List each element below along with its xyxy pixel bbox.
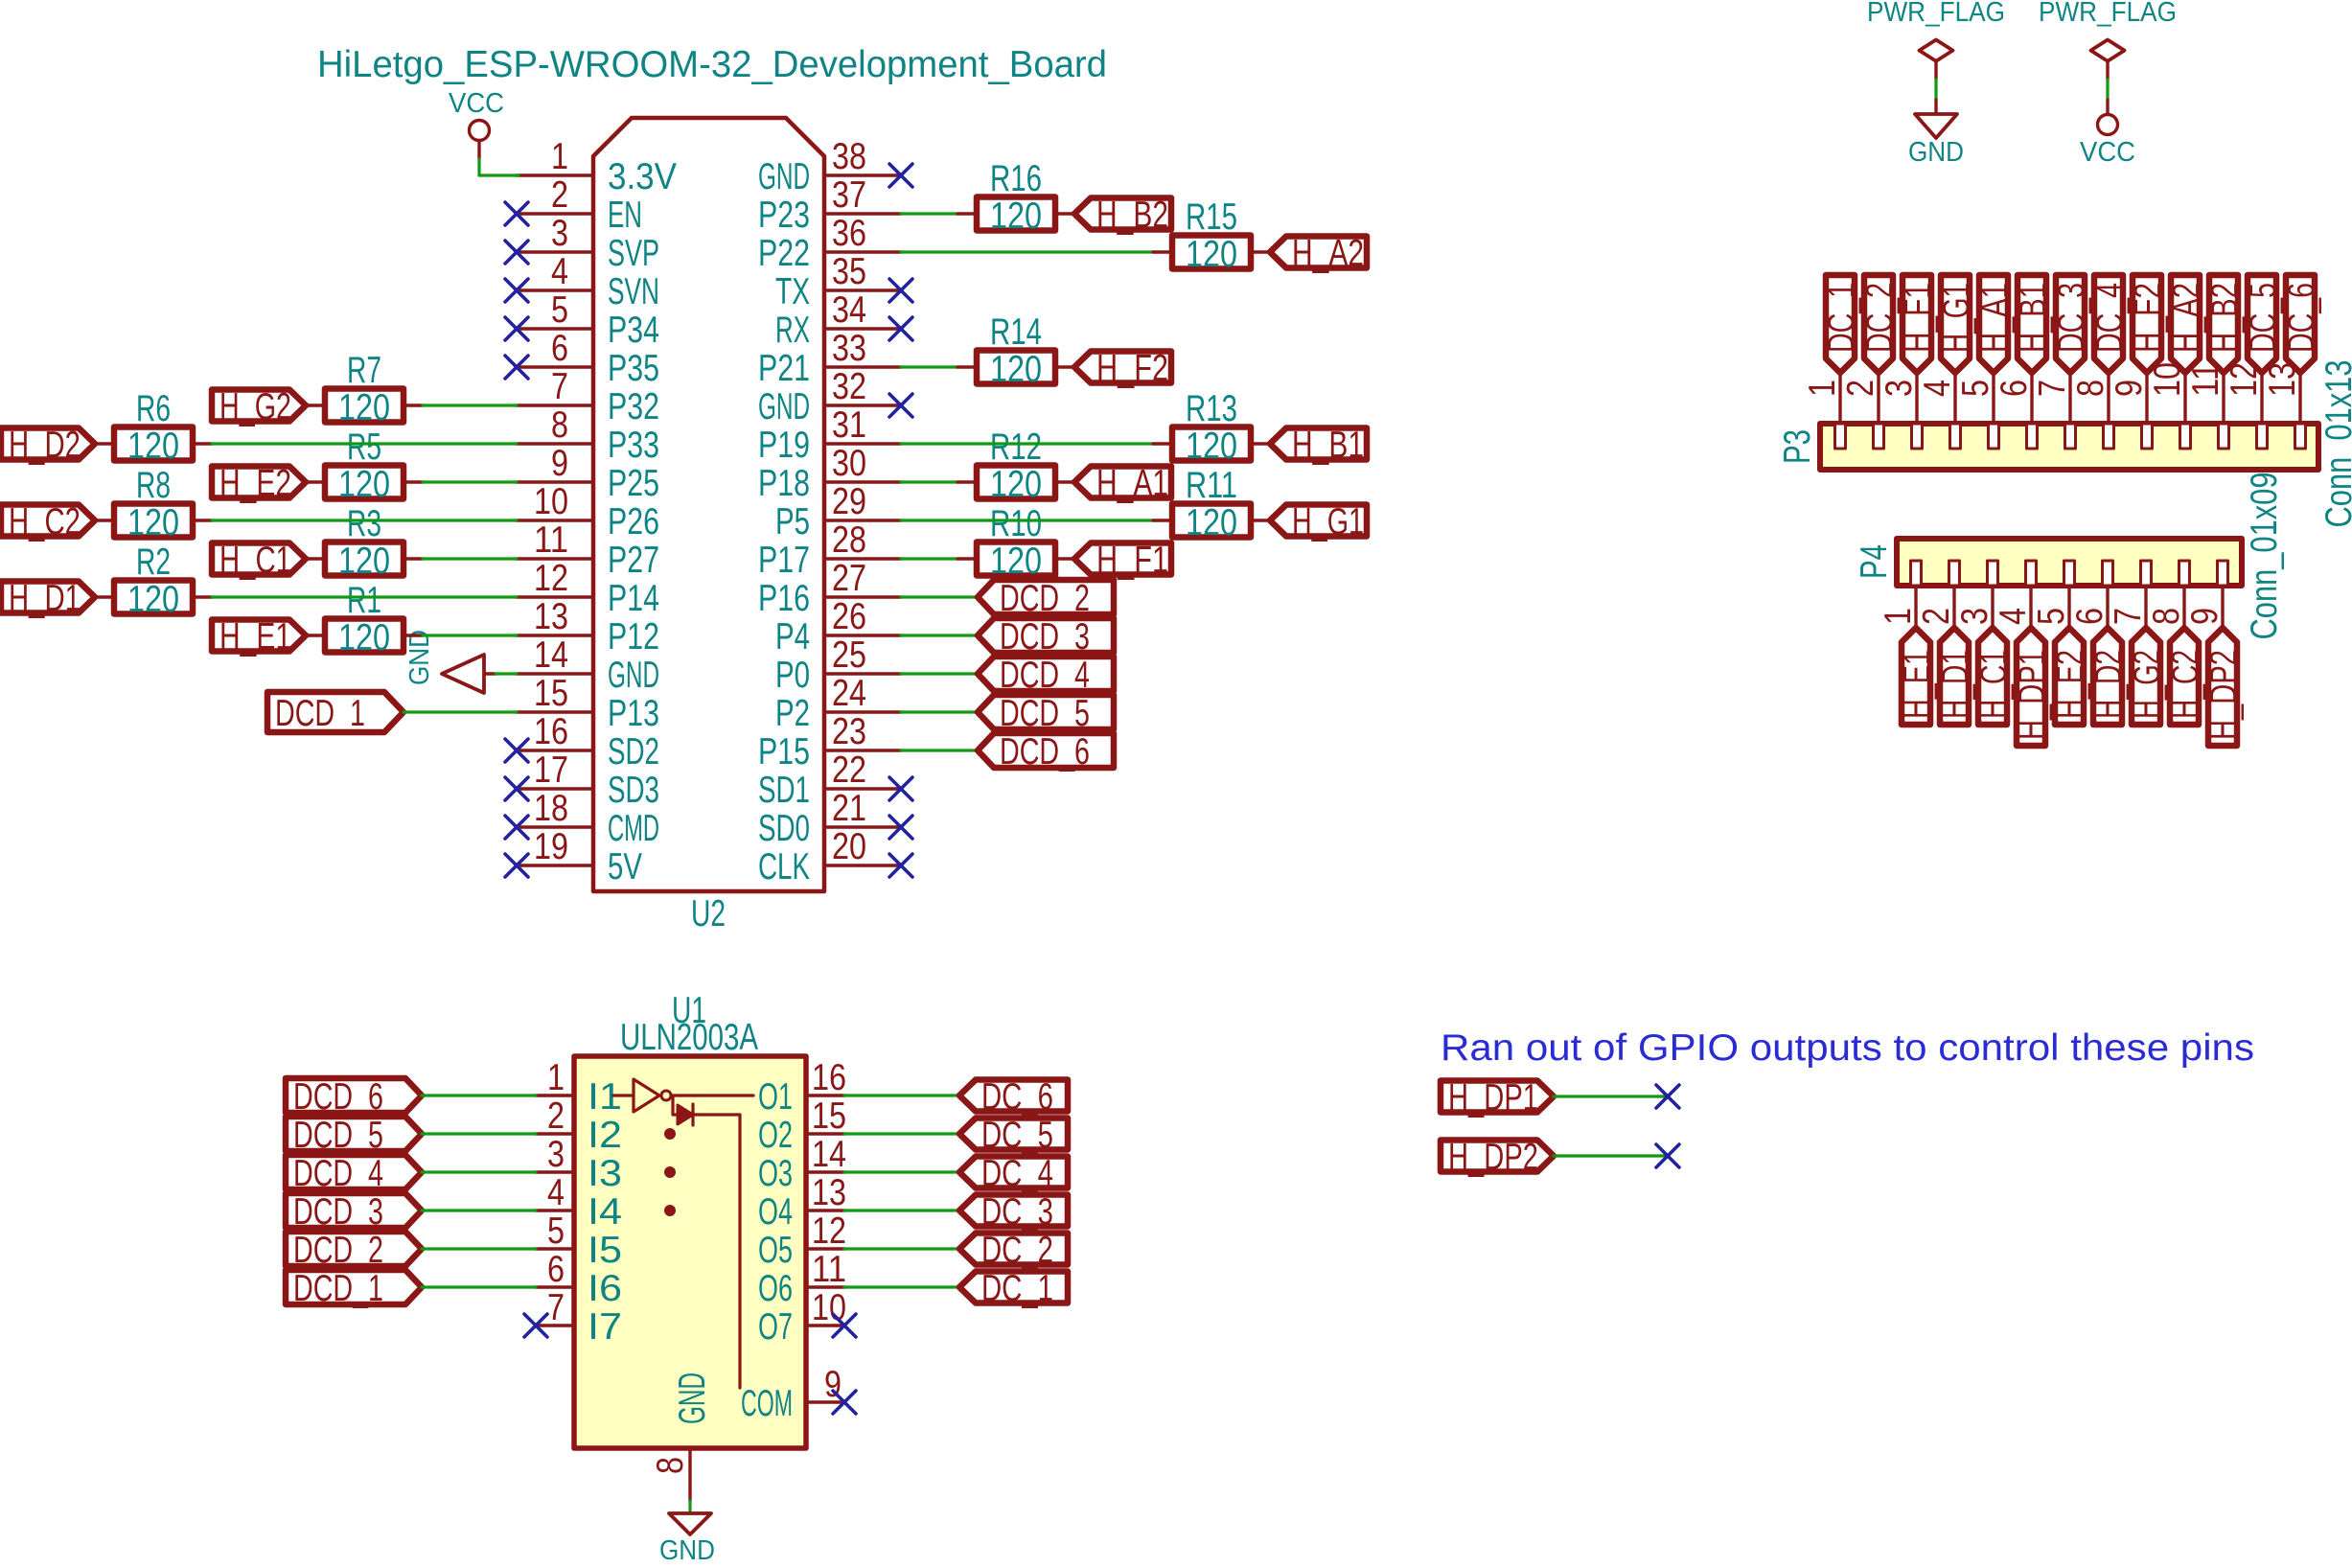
svg-text:Conn_01x13: Conn_01x13 xyxy=(2318,360,2352,528)
svg-text:120: 120 xyxy=(127,579,179,620)
svg-text:DC_3: DC_3 xyxy=(981,1191,1053,1233)
global label DC_4 xyxy=(2089,275,2131,373)
global label H_A2 xyxy=(1270,233,1367,274)
svg-text:5: 5 xyxy=(2031,608,2072,625)
resistor R7 xyxy=(306,350,423,428)
svg-text:R7: R7 xyxy=(347,350,381,391)
pin 29 (P5) of U2 xyxy=(775,481,901,542)
global label DC_3 xyxy=(2051,275,2092,373)
wire DCD_1 to pin 15 xyxy=(404,710,517,713)
global label H_E1 xyxy=(212,616,306,657)
svg-text:25: 25 xyxy=(832,634,866,676)
pin 18 (CMD) of U2 xyxy=(517,788,659,849)
svg-text:6: 6 xyxy=(1994,380,2035,397)
svg-text:P22: P22 xyxy=(758,233,810,274)
svg-text:35: 35 xyxy=(832,251,866,292)
svg-text:20: 20 xyxy=(832,826,866,867)
pin 13 (P12) of U2 xyxy=(517,596,659,657)
pin 21 (SD0) of U2 xyxy=(758,788,901,849)
global label DC_3 xyxy=(959,1191,1068,1233)
svg-text:23: 23 xyxy=(832,711,866,752)
no-connect pin 19 xyxy=(505,854,528,877)
svg-text:H_D2: H_D2 xyxy=(9,425,81,466)
pin 13 (O4) of U1 xyxy=(758,1172,846,1233)
pin 2 of P3 xyxy=(1840,373,1884,449)
wire R6 to pin 8 xyxy=(212,442,517,445)
pin 13 of P3 xyxy=(2262,362,2306,449)
pin 2 (I2) of U1 xyxy=(536,1095,622,1156)
wire pin 26 to DCD_3 xyxy=(901,634,978,636)
pin 16 (O1) of U1 xyxy=(758,1057,846,1118)
svg-text:P16: P16 xyxy=(758,578,810,619)
global label H_D1 xyxy=(1935,628,1976,725)
pin 2 of P4 xyxy=(1916,561,1960,628)
svg-text:H_F2: H_F2 xyxy=(1096,348,1168,389)
svg-text:PWR_FLAG: PWR_FLAG xyxy=(1867,0,2005,28)
global label DCD_6 xyxy=(978,731,1114,772)
global label DC_5 xyxy=(959,1115,1068,1156)
svg-text:DCD_4: DCD_4 xyxy=(1000,655,1090,696)
svg-text:H_DP2: H_DP2 xyxy=(2203,650,2245,740)
dot 2 inside U1 xyxy=(665,1167,676,1178)
pin 17 (SD3) of U2 xyxy=(517,749,659,811)
svg-text:30: 30 xyxy=(832,443,866,484)
svg-text:H_C1: H_C1 xyxy=(219,540,291,581)
global label H_A1 xyxy=(1074,463,1171,504)
global label DC_6 xyxy=(2281,275,2322,373)
svg-text:3: 3 xyxy=(547,1134,565,1175)
global label DCD_5 xyxy=(286,1115,422,1156)
svg-text:5: 5 xyxy=(551,289,568,331)
power symbol GND below U1 xyxy=(659,1513,715,1566)
resistor R5 xyxy=(306,427,423,505)
svg-text:GND: GND xyxy=(659,1535,715,1566)
global label DCD_2 xyxy=(978,578,1114,619)
global label H_E2 xyxy=(212,463,306,504)
svg-text:PWR_FLAG: PWR_FLAG xyxy=(2039,0,2177,28)
svg-text:CMD: CMD xyxy=(608,808,659,849)
svg-text:9: 9 xyxy=(2109,380,2150,397)
svg-text:R11: R11 xyxy=(1186,465,1237,506)
svg-text:H_C1: H_C1 xyxy=(1973,650,2015,719)
svg-text:P12: P12 xyxy=(608,616,659,657)
svg-text:P5: P5 xyxy=(775,501,810,542)
svg-text:H_B1: H_B1 xyxy=(2013,283,2054,353)
svg-text:7: 7 xyxy=(551,366,568,407)
svg-text:4: 4 xyxy=(551,251,568,292)
svg-text:I6: I6 xyxy=(588,1268,622,1309)
wire pin 8 to GND xyxy=(688,1501,691,1513)
svg-text:120: 120 xyxy=(338,541,390,582)
svg-text:6: 6 xyxy=(551,328,568,369)
svg-text:H_DP2: H_DP2 xyxy=(1448,1137,1538,1178)
global label H_F2 xyxy=(2128,275,2169,373)
svg-text:P14: P14 xyxy=(608,578,659,619)
pin 26 (P4) of U2 xyxy=(775,596,901,657)
pin 37 (P23) of U2 xyxy=(758,174,901,236)
resistor R10 xyxy=(957,503,1074,582)
resistor R2 xyxy=(95,542,212,620)
global label H_G1 xyxy=(1270,501,1367,542)
global label DCD_1 xyxy=(267,692,404,734)
dot 3 inside U1 xyxy=(665,1206,676,1216)
wire pin 24 to DCD_5 xyxy=(901,710,978,713)
svg-text:120: 120 xyxy=(127,426,179,467)
svg-text:14: 14 xyxy=(534,634,568,676)
global label DC_5 xyxy=(2243,275,2284,373)
wire DCD_5 to pin 2 xyxy=(422,1132,536,1135)
pin 23 (P15) of U2 xyxy=(758,711,901,772)
svg-text:H_E2: H_E2 xyxy=(2050,650,2091,719)
svg-text:R13: R13 xyxy=(1186,388,1237,429)
svg-text:P17: P17 xyxy=(758,540,810,581)
svg-text:COM: COM xyxy=(741,1383,793,1424)
svg-text:H_A2: H_A2 xyxy=(2166,283,2207,353)
no-connect pin 32 xyxy=(889,394,912,417)
svg-text:36: 36 xyxy=(832,213,866,254)
wire H_DP1 xyxy=(1554,1095,1668,1097)
svg-text:P19: P19 xyxy=(758,425,810,466)
svg-text:16: 16 xyxy=(812,1057,846,1098)
svg-text:P4: P4 xyxy=(775,616,810,657)
no-connect pin 5 xyxy=(505,317,528,340)
svg-text:9: 9 xyxy=(2184,608,2225,625)
pin 15 (P13) of U2 xyxy=(517,673,659,734)
svg-text:DCD_6: DCD_6 xyxy=(1000,731,1090,772)
svg-text:P18: P18 xyxy=(758,463,810,504)
power symbol VCC (top right) xyxy=(2080,100,2135,168)
pin 4 of P3 xyxy=(1917,373,1961,449)
wire R3 to pin 11 xyxy=(423,557,517,560)
svg-text:120: 120 xyxy=(990,349,1042,390)
svg-text:H_B2: H_B2 xyxy=(2204,283,2246,353)
svg-text:H_G2: H_G2 xyxy=(2127,650,2168,719)
svg-text:1: 1 xyxy=(551,136,568,177)
pin 3 (SVP) of U2 xyxy=(517,213,659,274)
global label H_C1 xyxy=(1973,628,2015,725)
pin 22 (SD1) of U2 xyxy=(758,749,901,811)
svg-text:DC_1: DC_1 xyxy=(981,1268,1053,1309)
svg-text:5: 5 xyxy=(547,1211,565,1252)
global label H_DP2 xyxy=(1441,1137,1554,1178)
pin 25 (P0) of U2 xyxy=(775,634,901,696)
svg-text:EN: EN xyxy=(608,195,642,236)
svg-text:120: 120 xyxy=(338,387,390,428)
svg-text:HiLetgo_ESP-WROOM-32_Developme: HiLetgo_ESP-WROOM-32_Development_Board xyxy=(317,44,1107,85)
svg-text:H_A1: H_A1 xyxy=(1974,283,2016,353)
pin 6 of P3 xyxy=(1994,373,2038,449)
pin 14 (O3) of U1 xyxy=(758,1134,846,1194)
global label H_C2 xyxy=(1,501,95,542)
global label H_B1 xyxy=(2013,275,2054,373)
svg-text:DCD_3: DCD_3 xyxy=(1000,616,1090,657)
pin 10 (O7) of U1 xyxy=(758,1287,846,1348)
wire pin 14 to DC_4 xyxy=(844,1170,959,1173)
svg-text:DCD_2: DCD_2 xyxy=(1000,578,1090,619)
wire DCD_4 to pin 3 xyxy=(422,1170,536,1173)
svg-text:H_D2: H_D2 xyxy=(2088,650,2130,719)
svg-text:H_G1: H_G1 xyxy=(1292,501,1364,542)
svg-text:H_A1: H_A1 xyxy=(1096,463,1168,504)
svg-text:DC_5: DC_5 xyxy=(2243,283,2284,353)
no-connect pin 18 xyxy=(505,816,528,839)
svg-text:R5: R5 xyxy=(347,427,381,468)
pin 7 of P4 xyxy=(2108,561,2152,628)
svg-text:17: 17 xyxy=(534,749,568,791)
svg-text:RX: RX xyxy=(775,310,810,351)
svg-text:16: 16 xyxy=(534,711,568,752)
global label H_A1 xyxy=(1974,275,2016,373)
wire pin 12 to DC_2 xyxy=(844,1247,959,1250)
wire pin 29 to R11 xyxy=(901,519,1153,521)
svg-text:4: 4 xyxy=(1917,380,1958,397)
pin 9 (COM) of U1 xyxy=(741,1364,844,1424)
svg-text:120: 120 xyxy=(338,617,390,658)
global label H_E1 xyxy=(1897,628,1938,725)
wire PWR_FLAG to VCC xyxy=(2106,80,2109,100)
svg-text:1: 1 xyxy=(1802,380,1843,397)
svg-text:P21: P21 xyxy=(758,348,810,389)
wire pin 33 to R14 xyxy=(901,365,957,368)
svg-text:I2: I2 xyxy=(588,1115,622,1156)
svg-text:1: 1 xyxy=(1878,608,1919,625)
svg-text:7: 7 xyxy=(2108,608,2149,625)
svg-text:P0: P0 xyxy=(775,655,810,696)
svg-text:GND: GND xyxy=(758,386,810,427)
pin 1 of P4 xyxy=(1878,561,1922,628)
svg-text:DC_5: DC_5 xyxy=(981,1115,1053,1156)
power symbol GND (top right) xyxy=(1908,100,1964,168)
wire DCD_1 to pin 6 xyxy=(422,1285,536,1288)
wire pin 13 to DC_3 xyxy=(844,1209,959,1211)
svg-text:VCC: VCC xyxy=(2080,137,2135,168)
svg-text:H_B1: H_B1 xyxy=(1292,425,1364,466)
svg-text:13: 13 xyxy=(812,1172,846,1213)
svg-text:12: 12 xyxy=(534,558,568,599)
svg-text:37: 37 xyxy=(832,174,866,216)
wire pin 27 to DCD_2 xyxy=(901,595,978,598)
wire R2 to pin 12 xyxy=(212,595,517,598)
svg-text:2: 2 xyxy=(1916,608,1957,625)
svg-text:4: 4 xyxy=(1993,608,2034,625)
svg-text:H_G1: H_G1 xyxy=(1936,283,1977,353)
svg-text:120: 120 xyxy=(990,464,1042,505)
resistor R6 xyxy=(95,388,212,467)
pin 27 (P16) of U2 xyxy=(758,558,901,619)
svg-text:H_F1: H_F1 xyxy=(1898,283,1939,353)
pin 1 (3.3V) of U2 xyxy=(517,136,677,197)
svg-text:38: 38 xyxy=(832,136,866,177)
svg-text:8: 8 xyxy=(2070,380,2111,397)
pin 9 of P4 xyxy=(2184,561,2228,628)
pin 12 (P14) of U2 xyxy=(517,558,659,619)
global label DCD_3 xyxy=(978,616,1114,657)
svg-text:11: 11 xyxy=(534,519,568,561)
pin 1 (I1) of U1 xyxy=(536,1057,622,1118)
no-connect pin 16 xyxy=(505,739,528,762)
global label DC_6 xyxy=(959,1076,1068,1118)
svg-text:I4: I4 xyxy=(588,1191,622,1233)
svg-text:U2: U2 xyxy=(691,893,726,934)
resistor R1 xyxy=(306,580,423,658)
svg-text:H_DP1: H_DP1 xyxy=(1448,1077,1538,1118)
svg-text:P35: P35 xyxy=(608,348,659,389)
wire pin 11 to DC_1 xyxy=(844,1285,959,1288)
pin 11 of P3 xyxy=(2185,362,2229,449)
svg-text:H_D1: H_D1 xyxy=(1935,650,1976,719)
wire DCD_6 to pin 1 xyxy=(422,1094,536,1096)
wire VCC to pin 1 xyxy=(479,159,519,175)
svg-text:5V: 5V xyxy=(608,846,642,888)
pin 8 of P4 xyxy=(2146,561,2190,628)
global label H_F1 xyxy=(1074,540,1171,581)
svg-text:DC_6: DC_6 xyxy=(2281,283,2322,353)
svg-text:GND: GND xyxy=(672,1372,713,1424)
svg-text:GND: GND xyxy=(404,630,435,685)
svg-text:SD0: SD0 xyxy=(758,808,810,849)
no-connect pin 34 xyxy=(889,317,912,340)
global label H_B2 xyxy=(2204,275,2246,373)
global label H_G2 xyxy=(2127,628,2168,725)
svg-text:120: 120 xyxy=(338,464,390,505)
global label DCD_2 xyxy=(286,1230,422,1271)
svg-text:2: 2 xyxy=(1840,380,1881,397)
pin 3 (I3) of U1 xyxy=(536,1134,622,1194)
svg-text:SD3: SD3 xyxy=(608,770,659,811)
pin 35 (TX) of U2 xyxy=(775,251,901,312)
wire PWR_FLAG to GND xyxy=(1934,80,1937,100)
global label H_DP1 xyxy=(1441,1077,1554,1118)
svg-text:P32: P32 xyxy=(608,386,659,427)
svg-text:DCD_3: DCD_3 xyxy=(293,1191,383,1233)
no-connect pin 35 xyxy=(889,279,912,302)
no-connect H_DP2 xyxy=(1656,1144,1679,1167)
resistor R12 xyxy=(957,427,1074,505)
svg-text:8: 8 xyxy=(650,1457,691,1474)
svg-text:GND: GND xyxy=(608,655,659,696)
inverter/diode internal motif of U1 xyxy=(613,1079,753,1388)
svg-text:R15: R15 xyxy=(1186,196,1237,238)
svg-text:R6: R6 xyxy=(136,388,171,429)
no-connect pin 2 xyxy=(505,202,528,225)
wire pin 23 to DCD_6 xyxy=(901,749,978,751)
svg-text:GND: GND xyxy=(1908,137,1964,168)
svg-text:2: 2 xyxy=(547,1095,565,1137)
power flag PWR_FLAG (VCC) xyxy=(2039,0,2177,80)
pin 4 (I4) of U1 xyxy=(536,1172,622,1233)
no-connect pin 17 xyxy=(505,777,528,800)
svg-text:DCD_5: DCD_5 xyxy=(1000,693,1090,734)
svg-text:I3: I3 xyxy=(588,1153,622,1194)
svg-text:DC_6: DC_6 xyxy=(981,1076,1053,1118)
svg-text:H_G2: H_G2 xyxy=(219,386,291,427)
wire pin 37 to R16 xyxy=(901,212,957,215)
svg-text:O7: O7 xyxy=(758,1306,793,1348)
global label DCD_4 xyxy=(286,1153,422,1194)
svg-text:Conn_01x09: Conn_01x09 xyxy=(2244,473,2285,640)
svg-text:34: 34 xyxy=(832,289,866,331)
global label H_C1 xyxy=(212,540,306,581)
global label DC_2 xyxy=(959,1230,1068,1271)
connector P4 body xyxy=(1897,539,2242,586)
global label DCD_6 xyxy=(286,1076,422,1118)
pin 33 (P21) of U2 xyxy=(758,328,901,389)
svg-text:15: 15 xyxy=(534,673,568,714)
svg-text:H_C2: H_C2 xyxy=(9,501,81,542)
pin 8 of P3 xyxy=(2070,373,2114,449)
global label H_A2 xyxy=(2166,275,2207,373)
wire pin 16 to DC_6 xyxy=(844,1094,959,1096)
pin 10 of P3 xyxy=(2147,362,2191,449)
global label H_D1 xyxy=(1,578,95,619)
pin 8 (P33) of U2 xyxy=(517,404,659,466)
no-connect pin 7 xyxy=(524,1314,547,1337)
svg-text:SVN: SVN xyxy=(608,271,659,312)
svg-text:O1: O1 xyxy=(758,1076,793,1118)
svg-text:12: 12 xyxy=(812,1211,846,1252)
svg-text:I5: I5 xyxy=(588,1230,622,1271)
pin 6 (I6) of U1 xyxy=(536,1249,622,1309)
global label DCD_1 xyxy=(286,1268,422,1309)
pin 31 (P19) of U2 xyxy=(758,404,901,466)
svg-text:P2: P2 xyxy=(775,693,810,734)
svg-text:R2: R2 xyxy=(136,542,171,583)
no-connect H_DP1 xyxy=(1656,1085,1679,1108)
pin 5 of P4 xyxy=(2031,561,2075,628)
svg-text:H_A2: H_A2 xyxy=(1292,233,1364,274)
wire R8 to pin 10 xyxy=(212,519,517,521)
no-connect pin 38 xyxy=(889,164,912,187)
global label H_B2 xyxy=(1074,195,1171,236)
pin 15 (O2) of U1 xyxy=(758,1095,846,1156)
svg-text:10: 10 xyxy=(534,481,568,522)
wire DCD_2 to pin 5 xyxy=(422,1247,536,1250)
resistor R16 xyxy=(957,158,1074,237)
svg-text:6: 6 xyxy=(2069,608,2110,625)
svg-text:H_E1: H_E1 xyxy=(1897,650,1938,719)
resistor R14 xyxy=(957,311,1074,390)
svg-text:3: 3 xyxy=(1954,608,1995,625)
svg-text:DCD_4: DCD_4 xyxy=(293,1153,383,1194)
wire DCD_3 to pin 4 xyxy=(422,1209,536,1211)
svg-text:ULN2003A: ULN2003A xyxy=(620,1017,758,1058)
pin 11 (O6) of U1 xyxy=(758,1249,846,1309)
global label DC_4 xyxy=(959,1153,1068,1194)
svg-text:O6: O6 xyxy=(758,1268,793,1309)
global label H_E2 xyxy=(2050,628,2091,725)
svg-text:H_DP1: H_DP1 xyxy=(2012,650,2053,740)
pin 5 of P3 xyxy=(1955,373,1999,449)
svg-text:13: 13 xyxy=(534,596,568,637)
svg-text:H_E1: H_E1 xyxy=(219,616,291,657)
pin 24 (P2) of U2 xyxy=(775,673,901,734)
svg-text:19: 19 xyxy=(534,826,568,867)
global label DC_1 xyxy=(959,1268,1068,1309)
svg-text:R16: R16 xyxy=(990,158,1042,199)
no-connect pin 22 xyxy=(889,777,912,800)
pin 9 (P25) of U2 xyxy=(517,443,659,504)
pin 19 (5V) of U2 xyxy=(517,826,642,888)
svg-text:DC_3: DC_3 xyxy=(2051,283,2092,353)
svg-text:O4: O4 xyxy=(758,1191,793,1233)
svg-text:29: 29 xyxy=(832,481,866,522)
pin 4 of P4 xyxy=(1993,561,2037,628)
svg-text:R1: R1 xyxy=(347,580,381,621)
svg-text:CLK: CLK xyxy=(758,846,810,888)
svg-text:P23: P23 xyxy=(758,195,810,236)
no-connect pin 3 xyxy=(505,241,528,264)
power symbol VCC xyxy=(449,88,504,159)
